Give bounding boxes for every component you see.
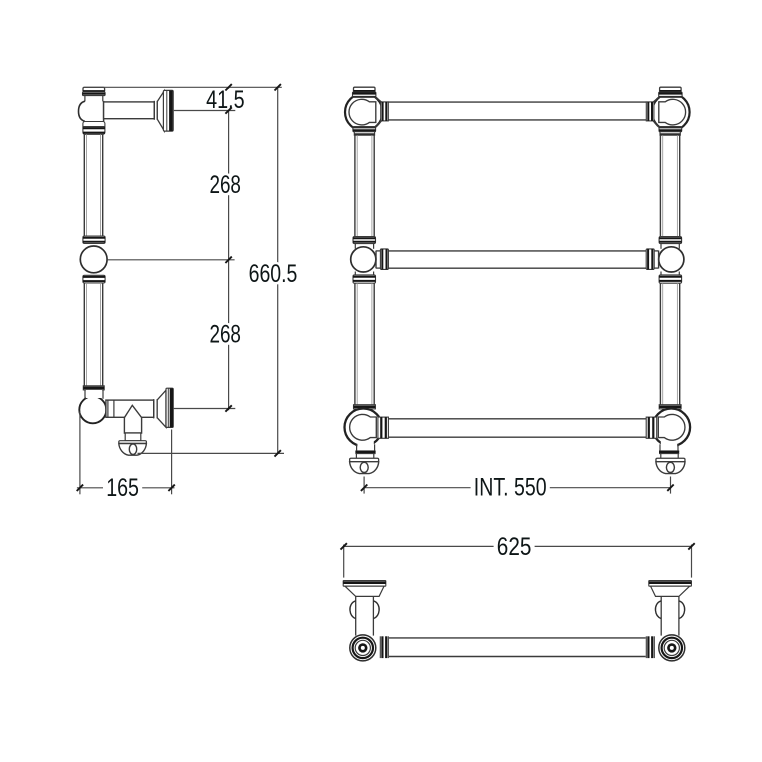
dimension line 660.5 xyxy=(277,87,279,453)
side view foot valve xyxy=(119,441,147,456)
side view middle ball xyxy=(80,246,107,273)
side view bottom stay arm xyxy=(106,399,157,418)
front view bottom rail xyxy=(388,419,646,437)
side view post upper segment xyxy=(84,134,102,236)
side view down branch xyxy=(124,405,141,433)
tick marks INT 550 xyxy=(361,485,674,491)
dimension line 41.5-268-268 xyxy=(228,87,230,410)
svg-text:625: 625 xyxy=(497,533,532,561)
label 41.5 xyxy=(203,89,248,111)
plan view left wall bracket and post end xyxy=(343,581,388,661)
plan view rail xyxy=(389,638,646,657)
label 268 lower xyxy=(206,323,244,345)
plan view right wall bracket and post end xyxy=(646,581,691,661)
side view collar under top ball xyxy=(83,122,105,135)
side view middle lower collar xyxy=(83,275,105,283)
side view down branch lower pipe xyxy=(125,433,141,441)
tick marks 165 xyxy=(77,485,175,491)
dimension line 165 xyxy=(77,487,175,489)
dimension line INT 550 xyxy=(364,487,670,489)
side view top neck xyxy=(85,96,103,102)
leader line middle ball xyxy=(107,259,234,261)
svg-text:660.5: 660.5 xyxy=(249,260,298,288)
side view top ball xyxy=(79,101,104,122)
side view post lower segment xyxy=(84,283,102,386)
side view top bracket flare xyxy=(157,91,164,131)
extension lines INT 550 xyxy=(364,477,670,494)
front view left post upper xyxy=(355,135,374,236)
leader line foot bottom xyxy=(138,452,285,454)
side view middle upper collar xyxy=(83,236,105,244)
side view bottom collar xyxy=(83,386,104,390)
leader line bottom stay xyxy=(174,408,236,410)
label 625 xyxy=(494,536,535,558)
side view overall top line xyxy=(84,86,282,88)
front view middle-left T fitting xyxy=(351,237,389,284)
extension lines 165 xyxy=(80,412,172,495)
svg-text:INT. 550: INT. 550 xyxy=(474,473,547,501)
front view right post upper xyxy=(660,135,679,236)
svg-text:268: 268 xyxy=(209,320,241,348)
front view top rail xyxy=(388,102,646,120)
front view top-left corner fitting xyxy=(345,87,388,135)
front view right post lower xyxy=(660,283,679,405)
label 268 upper xyxy=(206,174,244,196)
tick marks 625 xyxy=(341,543,695,549)
side view top cap finial xyxy=(83,87,105,92)
side view bottom ball xyxy=(79,396,106,423)
side view top bracket plate xyxy=(163,90,173,131)
extension lines 625 xyxy=(344,545,692,578)
front view top-right corner fitting xyxy=(646,87,689,135)
label INT 550 xyxy=(471,476,550,498)
side view top stay arm xyxy=(104,101,158,120)
leader line top stay xyxy=(174,110,236,112)
front view bottom-left corner fitting xyxy=(345,405,389,474)
dimension line 625 xyxy=(344,545,692,547)
side view bottom bracket plate xyxy=(166,388,173,427)
side view top cap band xyxy=(83,92,106,96)
side view bottom neck xyxy=(85,390,103,399)
label 660.5 xyxy=(245,263,300,285)
label 165 xyxy=(103,477,142,499)
front view middle rail xyxy=(388,251,646,268)
front view bottom-right corner fitting xyxy=(646,405,690,474)
tick marks side view xyxy=(225,84,281,457)
svg-text:268: 268 xyxy=(209,171,241,199)
side view bottom bracket flare xyxy=(157,390,166,427)
front view left post lower xyxy=(355,283,374,405)
front view middle-right T fitting xyxy=(646,237,684,284)
svg-text:165: 165 xyxy=(106,474,139,502)
